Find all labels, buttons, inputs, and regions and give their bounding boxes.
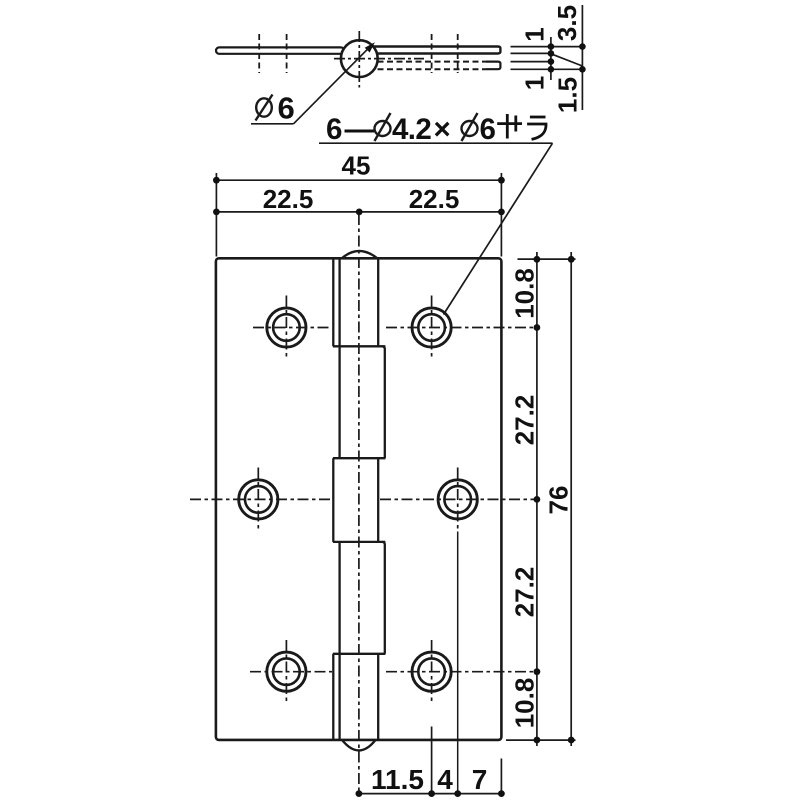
pin cap dome (342, 251, 378, 259)
row3 centerline (250, 671, 332, 673)
inner dim line (536, 252, 538, 746)
svg-text:27.2: 27.2 (510, 567, 540, 618)
phi symbol of label (256, 98, 272, 116)
svg-text:1: 1 (520, 27, 550, 41)
svg-text:×: × (434, 113, 451, 146)
dim dots 45/22.5 (213, 177, 220, 184)
svg-text:10.8: 10.8 (510, 268, 540, 319)
label underline (251, 123, 294, 125)
leader line to pin circle (294, 44, 373, 124)
svg-text:10.8: 10.8 (510, 678, 540, 729)
svg-text:1.5: 1.5 (553, 77, 583, 113)
bottom dim dots (356, 790, 363, 797)
svg-text:6: 6 (278, 91, 295, 126)
katakana SA (497, 114, 522, 139)
svg-text:6: 6 (480, 113, 496, 146)
plate outline (216, 258, 502, 740)
hole row1 right (412, 308, 451, 347)
hole row2 left (239, 480, 278, 519)
right dim dots (534, 256, 541, 263)
svg-text:76: 76 (544, 486, 574, 515)
note leader to hole (444, 143, 553, 314)
katakana RA (527, 117, 546, 139)
svg-text:27.2: 27.2 (510, 395, 540, 446)
outer small dim line (581, 5, 583, 110)
top extension (518, 258, 576, 260)
svg-text:7: 7 (472, 764, 488, 795)
hole vertical centerlines (285, 296, 287, 360)
hole row3 left (267, 652, 306, 691)
dim dots small stack (548, 43, 555, 50)
right leaf inner edge segments x=384.8 (382, 346, 385, 458)
hole row1 left (267, 308, 306, 347)
svg-text:—: — (345, 113, 375, 146)
extension line bar1 bottom (511, 52, 554, 54)
extension plate right edge (500, 759, 502, 794)
hidden lower-right leaf dashed top edge (368, 61, 486, 63)
hinge left leaf (edge view bar) (216, 47, 344, 53)
dim line 22.5 pair (216, 211, 501, 213)
extension line bar2 bottom (511, 68, 585, 70)
hole row3 right (412, 652, 451, 691)
hidden lower-right leaf solid end (486, 62, 500, 70)
inner small dim line (550, 37, 552, 80)
svg-text:4.2: 4.2 (392, 113, 431, 146)
left leaf inner edge segments x=333.3 (332, 260, 334, 347)
circle centerline vertical (358, 31, 360, 88)
extension mid hole col (457, 532, 459, 794)
extension hole col right (431, 727, 433, 794)
oblique dim stroke (551, 54, 582, 66)
hinge right leaf (edge view bar) (362, 47, 500, 54)
pin right edge segments x=378.2 (377, 258, 379, 346)
extension line bar2 top (511, 61, 554, 63)
knuckle circle (pin, top view) (341, 40, 378, 77)
extension line left (215, 173, 217, 257)
circle centerline horizontal (334, 58, 424, 60)
pin left edge segments x=339.6 (338, 258, 340, 458)
knuckle boundary lines (333, 345, 386, 347)
dim line 45 (216, 179, 501, 181)
svg-text:1: 1 (520, 76, 550, 90)
svg-text:6: 6 (326, 113, 342, 146)
hidden hole line right B (457, 34, 459, 73)
svg-text:11.5: 11.5 (371, 764, 424, 795)
extension line right (500, 173, 502, 257)
svg-text:22.5: 22.5 (263, 184, 314, 214)
leader arrowhead (365, 42, 375, 52)
hidden lower-right leaf dashed bottom edge (368, 68, 486, 70)
svg-text:22.5: 22.5 (409, 184, 460, 214)
hidden hole line right A (431, 34, 433, 73)
note underline (319, 142, 553, 144)
outer dim line 76 (570, 252, 572, 746)
pin bottom tip (342, 740, 376, 751)
note phi 1 (375, 113, 391, 141)
note phi 2 (462, 113, 478, 141)
pin axis centerline (358, 214, 360, 793)
svg-text:3.5: 3.5 (552, 5, 582, 41)
hole row2 right (438, 480, 477, 519)
hidden hole line left B (286, 34, 288, 73)
bottom extension (506, 739, 576, 741)
svg-text:45: 45 (342, 151, 371, 181)
hidden hole line left A (258, 34, 260, 73)
extension line bar1 top (511, 46, 585, 48)
svg-text:4: 4 (437, 764, 453, 795)
row2 centerline (190, 498, 332, 500)
bottom dim line (356, 793, 504, 795)
row1 centerline (253, 327, 332, 329)
